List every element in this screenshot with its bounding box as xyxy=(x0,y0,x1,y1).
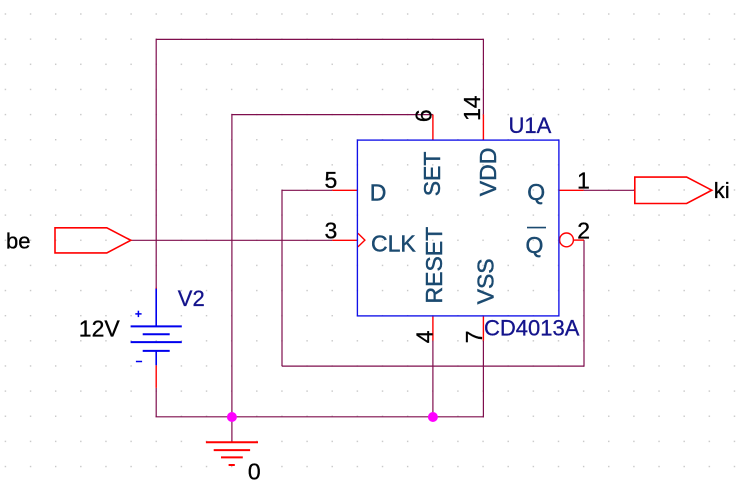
svg-text:5: 5 xyxy=(325,167,338,193)
svg-text:V2: V2 xyxy=(178,286,205,311)
svg-text:ki: ki xyxy=(714,178,730,203)
svg-text:4: 4 xyxy=(411,330,437,343)
svg-text:14: 14 xyxy=(459,95,485,121)
svg-text:CD4013A: CD4013A xyxy=(484,316,580,341)
svg-text:Q: Q xyxy=(527,179,545,205)
svg-text:6: 6 xyxy=(410,109,436,122)
svg-text:VDD: VDD xyxy=(475,148,501,197)
svg-text:SET: SET xyxy=(419,152,445,197)
svg-text:be: be xyxy=(6,228,30,253)
svg-text:2: 2 xyxy=(577,217,590,243)
svg-text:1: 1 xyxy=(577,167,590,193)
svg-text:0: 0 xyxy=(248,459,261,485)
svg-text:RESET: RESET xyxy=(421,227,447,304)
svg-text:U1A: U1A xyxy=(509,113,552,138)
svg-text:VSS: VSS xyxy=(473,258,499,304)
svg-text:12V: 12V xyxy=(79,315,121,341)
svg-text:3: 3 xyxy=(325,218,338,244)
svg-text:D: D xyxy=(370,180,387,206)
svg-text:CLK: CLK xyxy=(371,230,416,256)
svg-text:Q: Q xyxy=(526,232,544,258)
